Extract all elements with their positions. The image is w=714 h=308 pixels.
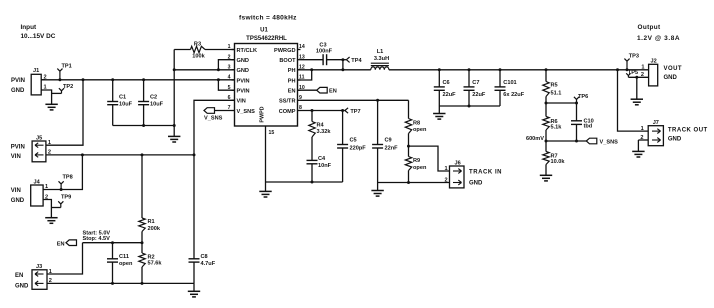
wire U1 pin11 bracket xyxy=(298,70,312,80)
svg-text:3.3uH: 3.3uH xyxy=(374,56,389,62)
svg-text:open: open xyxy=(413,127,427,133)
ground under input caps xyxy=(168,126,180,143)
resistor R7 xyxy=(543,141,566,175)
test point TP1 xyxy=(57,64,71,82)
ground under J1 xyxy=(45,104,57,110)
svg-text:14: 14 xyxy=(299,44,305,50)
test point TP4 xyxy=(343,57,363,64)
svg-text:J5: J5 xyxy=(36,136,42,142)
svg-text:PH: PH xyxy=(288,78,296,84)
wire BOOT to PH xyxy=(341,58,344,71)
note input voltage xyxy=(21,24,56,40)
svg-text:GND: GND xyxy=(237,58,249,64)
svg-text:10...15V DC: 10...15V DC xyxy=(21,33,56,40)
svg-text:PVIN: PVIN xyxy=(11,144,25,150)
svg-text:100k: 100k xyxy=(192,54,205,60)
svg-text:R5: R5 xyxy=(551,83,558,89)
svg-text:VIN: VIN xyxy=(237,99,246,105)
svg-text:R9: R9 xyxy=(413,158,420,164)
svg-text:PWRGD: PWRGD xyxy=(274,48,295,54)
svg-text:GND: GND xyxy=(15,283,29,289)
net flag V_SNS at feedback xyxy=(586,138,618,145)
note switching frequency xyxy=(239,15,297,22)
svg-text:tbd: tbd xyxy=(584,123,593,129)
resistor R2 xyxy=(139,243,163,284)
svg-text:15: 15 xyxy=(269,130,275,136)
svg-text:1: 1 xyxy=(228,44,231,50)
resistor R1 xyxy=(139,155,161,243)
svg-text:BOOT: BOOT xyxy=(279,58,296,64)
note output rating xyxy=(637,24,680,42)
test point TP8 xyxy=(59,175,73,190)
svg-text:GND: GND xyxy=(237,68,249,74)
capacitor C101 xyxy=(495,70,525,106)
svg-text:C6: C6 xyxy=(443,80,450,86)
svg-text:2: 2 xyxy=(445,177,448,183)
test point TP2 xyxy=(52,84,74,93)
svg-text:PVIN: PVIN xyxy=(237,89,250,95)
svg-text:22uF: 22uF xyxy=(472,92,486,98)
svg-text:10uF: 10uF xyxy=(119,102,133,108)
test point TP3 xyxy=(624,54,639,70)
svg-text:VOUT: VOUT xyxy=(664,66,682,72)
ground under J2 xyxy=(631,99,643,105)
wire J1 pin1 to ground xyxy=(41,90,51,104)
connector J1 xyxy=(11,68,47,95)
svg-text:GND: GND xyxy=(11,198,25,204)
svg-text:1.2V @ 3.8A: 1.2V @ 3.8A xyxy=(637,35,680,42)
svg-text:VIN: VIN xyxy=(11,154,21,160)
svg-text:10uF: 10uF xyxy=(150,102,164,108)
svg-text:TP6: TP6 xyxy=(578,94,588,100)
svg-text:J2: J2 xyxy=(651,59,657,65)
svg-text:L1: L1 xyxy=(377,49,384,55)
connector J4 xyxy=(11,179,48,206)
capacitor C2 xyxy=(138,80,164,126)
wire J2 pin2 to ground xyxy=(628,76,648,99)
svg-text:J1: J1 xyxy=(33,68,39,74)
svg-text:PVIN: PVIN xyxy=(237,78,250,84)
svg-text:R8: R8 xyxy=(413,121,420,127)
resistor R9 xyxy=(405,145,427,183)
net flag EN at divider xyxy=(57,240,77,247)
resistor R3 xyxy=(174,41,234,59)
ground under R7 xyxy=(540,175,552,181)
svg-text:TP5: TP5 xyxy=(628,70,638,76)
wire VOUT rail xyxy=(389,68,649,71)
connector J2 xyxy=(641,59,682,86)
wire EN node xyxy=(83,241,144,244)
wire ss ground bus xyxy=(378,181,450,184)
wire COMP node xyxy=(301,109,345,112)
svg-text:VIN: VIN xyxy=(11,188,21,194)
svg-text:TP7: TP7 xyxy=(350,109,360,115)
svg-text:Stop: 4.5V: Stop: 4.5V xyxy=(83,236,111,242)
capacitor C9 xyxy=(372,100,398,182)
wire VIN rail riser to U1 pin6 xyxy=(194,100,235,155)
svg-text:1: 1 xyxy=(641,126,644,132)
svg-text:GND: GND xyxy=(668,137,682,143)
svg-text:J3: J3 xyxy=(36,264,42,270)
svg-text:EN: EN xyxy=(57,241,65,247)
svg-text:SS/TR: SS/TR xyxy=(279,99,295,105)
ground under output caps xyxy=(433,106,445,119)
svg-text:EN: EN xyxy=(329,89,337,95)
svg-text:100nF: 100nF xyxy=(316,48,333,54)
resistor R5 xyxy=(543,70,562,103)
net flag EN at U1 pin10 xyxy=(298,87,337,94)
svg-text:600mV: 600mV xyxy=(526,136,544,142)
svg-text:TP8: TP8 xyxy=(63,175,73,181)
svg-text:51.1: 51.1 xyxy=(551,91,562,97)
svg-text:10.0k: 10.0k xyxy=(551,159,566,165)
capacitor C8 xyxy=(189,155,216,284)
wire PVIN rail to J5 pin1 xyxy=(46,80,83,145)
svg-text:COMP: COMP xyxy=(279,109,296,115)
svg-text:C11: C11 xyxy=(119,254,129,260)
svg-text:6x 22uF: 6x 22uF xyxy=(503,92,524,98)
svg-text:5.1k: 5.1k xyxy=(551,124,563,130)
wire J7 pin2 to ground xyxy=(638,140,648,151)
svg-text:C5: C5 xyxy=(350,138,357,144)
svg-text:C2: C2 xyxy=(150,94,157,100)
svg-text:22nF: 22nF xyxy=(385,145,399,151)
wire gnd net vertical xyxy=(173,50,176,128)
svg-text:R3: R3 xyxy=(194,41,201,47)
svg-text:C9: C9 xyxy=(385,138,392,144)
capacitor C7 xyxy=(464,70,486,106)
svg-text:TRACK IN: TRACK IN xyxy=(469,169,502,175)
svg-text:5: 5 xyxy=(228,85,231,91)
svg-text:3.32k: 3.32k xyxy=(317,129,332,135)
wire VOUT to J7 pin1 xyxy=(618,70,649,131)
svg-text:C8: C8 xyxy=(201,254,208,260)
capacitor C5 xyxy=(337,111,366,183)
resistor R4 xyxy=(309,111,332,161)
resistor R6 xyxy=(543,103,562,141)
svg-text:2: 2 xyxy=(228,54,231,60)
capacitor C6 xyxy=(434,70,456,106)
wire EN ground bus xyxy=(47,282,194,285)
wire comp ground bus xyxy=(266,181,343,184)
wire U1 pin15 powerpad to ground bus xyxy=(266,126,275,182)
svg-text:C1: C1 xyxy=(119,94,126,100)
wire IC pvin pin5 bracket xyxy=(218,80,234,90)
wire VIN rail xyxy=(46,153,196,156)
test point TP7 xyxy=(345,108,361,115)
svg-text:TP1: TP1 xyxy=(62,64,72,70)
svg-text:GND: GND xyxy=(11,88,25,94)
wire SS/TR node xyxy=(301,99,409,102)
svg-text:EN: EN xyxy=(15,273,23,279)
svg-text:4: 4 xyxy=(228,75,231,81)
svg-text:Output: Output xyxy=(638,24,662,31)
wire output cap ground bus xyxy=(439,105,500,108)
connector J6 xyxy=(445,160,503,188)
svg-text:R1: R1 xyxy=(148,219,155,225)
connector J3 xyxy=(15,264,52,289)
ground under U1 powerpad xyxy=(259,182,271,197)
svg-text:22uF: 22uF xyxy=(443,92,457,98)
svg-text:GND: GND xyxy=(469,180,483,186)
svg-text:200k: 200k xyxy=(148,226,161,232)
svg-text:2: 2 xyxy=(49,278,52,284)
svg-text:1: 1 xyxy=(48,140,51,146)
wire EN to J3 pin1 xyxy=(47,243,83,274)
svg-text:TP4: TP4 xyxy=(351,58,362,64)
svg-text:PWPD: PWPD xyxy=(260,106,266,122)
ground under C9 xyxy=(371,183,383,197)
svg-text:C7: C7 xyxy=(472,80,479,86)
resistor R8 xyxy=(405,100,427,146)
svg-text:57.6k: 57.6k xyxy=(148,260,163,266)
svg-text:C4: C4 xyxy=(318,156,326,162)
svg-text:open: open xyxy=(413,165,427,171)
svg-text:TRACK OUT: TRACK OUT xyxy=(668,127,708,133)
ground under J4 xyxy=(45,218,57,224)
wire J1 pin2 to PVIN rail xyxy=(41,79,45,81)
svg-text:TPS54622RHL: TPS54622RHL xyxy=(246,36,287,42)
svg-text:1: 1 xyxy=(641,64,644,70)
wire input cap ground bus xyxy=(113,124,175,127)
svg-text:3: 3 xyxy=(228,65,231,71)
test point TP5 xyxy=(626,70,638,78)
net flag V_SNS at U1 pin7 xyxy=(204,108,232,122)
svg-text:PVIN: PVIN xyxy=(11,78,25,84)
svg-text:J4: J4 xyxy=(34,179,41,185)
wire J4 pin1 to VIN rail xyxy=(43,155,82,191)
svg-text:PH: PH xyxy=(288,68,296,74)
svg-text:V_SNS: V_SNS xyxy=(237,109,256,115)
connector J5 xyxy=(11,136,51,162)
wire PH node xyxy=(298,68,371,71)
svg-text:C101: C101 xyxy=(503,80,516,86)
svg-text:U1: U1 xyxy=(260,28,268,34)
svg-text:1: 1 xyxy=(49,269,52,275)
note enable thresholds xyxy=(83,231,111,243)
svg-text:V_SNS: V_SNS xyxy=(600,139,619,145)
svg-text:220pF: 220pF xyxy=(350,145,367,151)
svg-text:TP2: TP2 xyxy=(63,84,73,90)
wire track divider to J6 pin1 xyxy=(409,146,450,171)
test point TP6 xyxy=(574,94,588,103)
svg-text:10nF: 10nF xyxy=(318,163,332,169)
wire J4 pin2 to ground xyxy=(43,200,61,218)
svg-text:J7: J7 xyxy=(653,120,659,126)
svg-text:V_SNS: V_SNS xyxy=(204,116,223,122)
capacitor C11 xyxy=(107,243,133,284)
IC U1 TPS54622RHL xyxy=(228,28,305,127)
svg-text:Input: Input xyxy=(21,24,37,31)
capacitor C4 xyxy=(307,156,332,182)
wire feedback node xyxy=(526,136,586,142)
ground under C8 xyxy=(188,283,200,297)
capacitor C3 xyxy=(301,42,343,65)
wire R5 R6 node to C10 xyxy=(545,102,579,105)
svg-text:RT/CLK: RT/CLK xyxy=(237,48,258,54)
svg-text:4.7uF: 4.7uF xyxy=(201,261,216,267)
capacitor C10 xyxy=(571,103,594,141)
svg-text:R4: R4 xyxy=(317,122,325,128)
wire IC gnd pins bracket xyxy=(174,60,234,72)
svg-text:open: open xyxy=(119,261,133,267)
svg-text:J6: J6 xyxy=(455,160,461,166)
svg-text:1: 1 xyxy=(445,166,448,172)
connector J7 xyxy=(640,120,707,146)
test point TP9 xyxy=(58,195,71,208)
capacitor C1 xyxy=(107,80,132,126)
wire PVIN rail xyxy=(41,78,234,81)
inductor L1 xyxy=(371,49,389,70)
svg-text:GND: GND xyxy=(664,75,678,81)
ground under J7 xyxy=(632,151,644,157)
svg-text:EN: EN xyxy=(288,89,296,95)
svg-text:TP9: TP9 xyxy=(61,195,71,201)
svg-text:TP3: TP3 xyxy=(629,54,639,60)
svg-text:fswitch = 480kHz: fswitch = 480kHz xyxy=(239,15,297,22)
